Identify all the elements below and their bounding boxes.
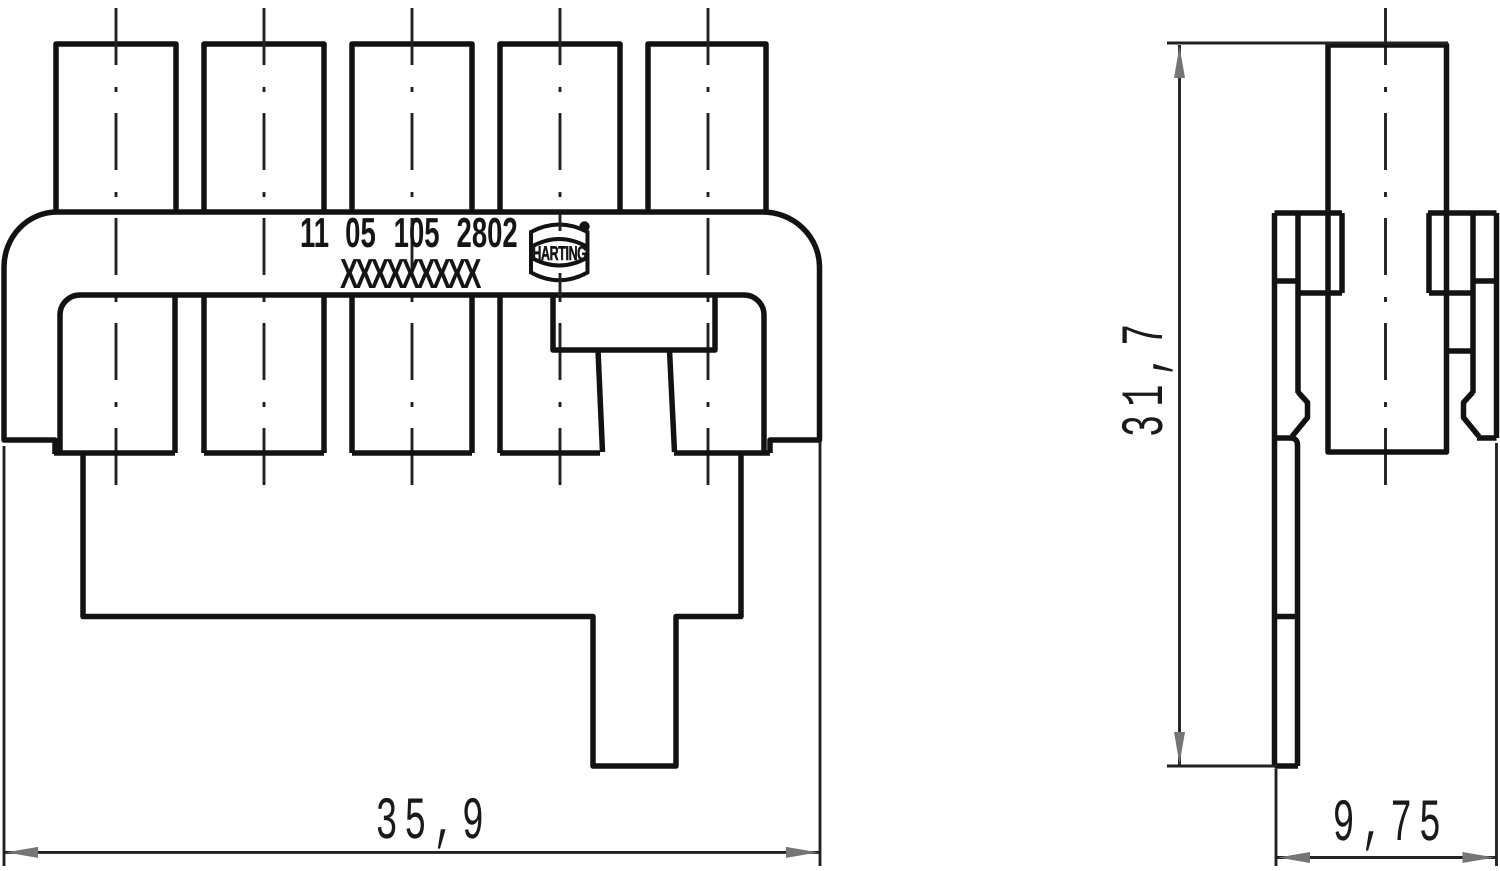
registered trademark dot (579, 221, 589, 231)
arrowhead left 9,75 (1278, 852, 1310, 863)
svg-text:31,7: 31,7 (1114, 316, 1182, 437)
keying slot right leg (670, 350, 675, 452)
insert bottom edge segment 1 (54, 450, 175, 456)
left latch divider (1275, 278, 1299, 284)
cavity 3 right wall (469, 295, 475, 453)
contact pin 3 (front view) (352, 44, 472, 214)
svg-text:XXXXXXXXX: XXXXXXXXX (340, 250, 482, 297)
centerline pin 5 (707, 8, 710, 506)
keying slot depth line (1447, 348, 1474, 354)
svg-text:2802: 2802 (457, 209, 518, 256)
right latch hook (1464, 392, 1480, 437)
insert bottom edge segment 5 (674, 450, 770, 456)
centerline pin 1 (115, 8, 118, 506)
arrowhead top 31,7 (1174, 46, 1185, 78)
cavity 4 left wall (497, 295, 503, 453)
extension line left (35,9) (3, 446, 6, 866)
arrowhead left 35,9 (6, 847, 38, 858)
insert bottom edge segment 3 (352, 450, 472, 456)
extension line left (9,75) (1275, 769, 1278, 866)
contact pin 4 (front view) (500, 44, 620, 214)
keying slot left leg (598, 350, 603, 452)
left latch bottom edge (1275, 763, 1299, 769)
side view top face right (1428, 210, 1497, 216)
right latch foot (1477, 435, 1497, 441)
right tab (1429, 213, 1473, 293)
extension line right (35,9) (819, 442, 822, 866)
left latch hook (1292, 392, 1308, 437)
right latch outer edge (1494, 213, 1500, 438)
svg-text:11: 11 (300, 209, 329, 256)
contact pin 1 (front view) (56, 44, 176, 214)
side view body rectangle (1328, 45, 1447, 452)
dimension line 9,75 (1276, 856, 1497, 859)
cavity 2 right wall (321, 295, 327, 453)
svg-text:9,75: 9,75 (1333, 792, 1448, 860)
HARTING logo (531, 225, 588, 281)
centerline pin 2 (263, 8, 266, 506)
arrowhead bottom 31,7 (1174, 732, 1185, 764)
arrowhead right 35,9 (786, 847, 818, 858)
left latch foot and inner edge lower (1275, 438, 1298, 766)
centerline pin 4 (559, 8, 562, 506)
contact pin 2 (front view) (204, 44, 324, 214)
keying slot (553, 295, 715, 350)
svg-text:105: 105 (394, 209, 440, 256)
connector hood outer body (4, 212, 820, 454)
svg-text:35,9: 35,9 (376, 790, 491, 858)
left latch divider at skirt bottom (1275, 614, 1299, 620)
left latch inner edge upper (1295, 213, 1301, 393)
insert moulding outline (60, 295, 764, 455)
arrowhead right 9,75 (1463, 852, 1495, 863)
cavity 2 left wall (201, 295, 207, 453)
extension line top (31,7) (1167, 42, 1448, 45)
insert bottom edge segment 2 (204, 450, 324, 456)
side view centerline (1384, 8, 1387, 500)
extension line bottom (31,7) (1167, 765, 1277, 768)
right latch inner edge (1470, 213, 1476, 393)
extension line right (9,75) (1495, 443, 1498, 866)
cavity 3 left wall (349, 295, 355, 453)
dimension line 31,7 (1178, 45, 1181, 765)
contact pin 5 (front view) (648, 44, 766, 214)
centerline pin 3 (411, 8, 414, 506)
centerline stubs through logo (559, 214, 562, 231)
left tab (1298, 213, 1342, 293)
marking text line 1: 11 05 105 2802 (300, 209, 518, 256)
dimension line 35,9 (4, 851, 820, 854)
left latch outer edge (1272, 213, 1278, 766)
svg-text:HARTING: HARTING (532, 243, 586, 265)
cavity 1 right wall (172, 295, 178, 453)
insert bottom edge segment 4 (500, 450, 600, 456)
svg-text:05: 05 (345, 209, 376, 256)
side view top face left (1275, 210, 1343, 216)
right latch divider (1473, 278, 1497, 284)
rear skirt with locating lug (83, 453, 741, 766)
